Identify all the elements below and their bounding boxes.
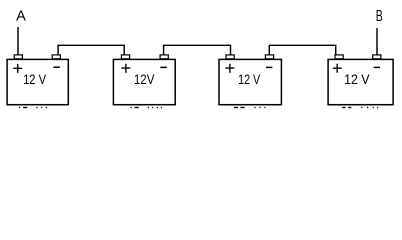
svg-text:12 V: 12 V <box>23 71 47 87</box>
svg-text:12 V: 12 V <box>344 71 370 87</box>
svg-text:A: A <box>16 7 26 24</box>
svg-text:B: B <box>376 8 383 25</box>
svg-text:12V: 12V <box>134 71 155 87</box>
svg-text:12 V: 12 V <box>238 71 261 87</box>
